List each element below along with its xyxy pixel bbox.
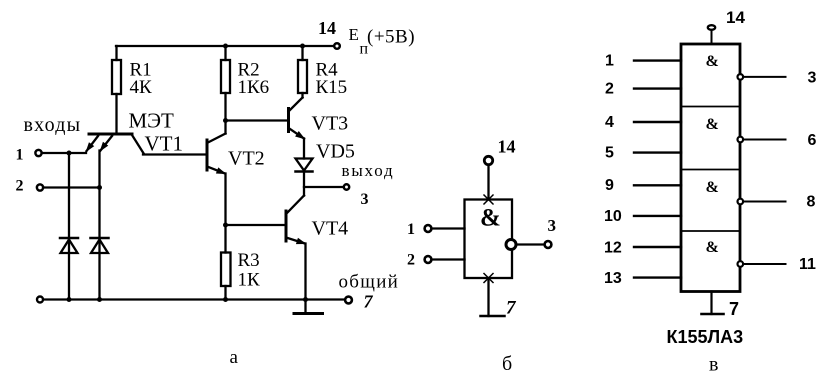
- wire R3 to ground rail: [224, 286, 226, 300]
- svg-text:входы: входы: [24, 114, 82, 136]
- transistor VT1 emitter 2: [101, 136, 113, 151]
- svg-text:VT4: VT4: [312, 218, 349, 240]
- wire pin 1: [634, 59, 681, 61]
- svg-text:12: 12: [604, 240, 622, 257]
- svg-text:&: &: [706, 116, 719, 133]
- node ground terminal pin 7: [345, 297, 352, 304]
- resistor R4: [298, 60, 307, 93]
- wire bottom ground rail: [44, 298, 345, 300]
- svg-text:14: 14: [318, 18, 336, 38]
- wire R2 to VT2 collector: [224, 93, 226, 134]
- node junction input1/diode column: [67, 151, 72, 156]
- ground symbol schematic a: [294, 312, 323, 315]
- node power terminal 14: [484, 156, 492, 164]
- node junction R3/VT4 base: [223, 223, 228, 228]
- wire pin 10: [634, 215, 681, 217]
- node junction diode1/rail: [67, 297, 72, 302]
- svg-text:2: 2: [407, 252, 415, 269]
- svg-text:2: 2: [605, 81, 614, 98]
- wire pin 5: [634, 151, 681, 153]
- svg-text:1К6: 1К6: [238, 77, 270, 98]
- gate U1 body: [465, 200, 513, 279]
- svg-text:7: 7: [729, 299, 739, 319]
- svg-text:R3: R3: [238, 250, 260, 271]
- wire R1 to VT1 base: [115, 94, 117, 133]
- ground bar: [702, 313, 724, 316]
- wire power pin: [711, 31, 713, 44]
- svg-text:(+5В): (+5В): [367, 27, 415, 48]
- transistor VT4 emitter: [286, 238, 305, 244]
- wire node to VT4 base: [226, 224, 287, 226]
- wire pin 3: [745, 76, 786, 78]
- wire VD5 to output node: [303, 172, 305, 196]
- svg-text:1: 1: [16, 147, 24, 164]
- svg-text:10: 10: [604, 208, 622, 225]
- svg-text:&: &: [706, 53, 719, 70]
- node output terminal 3: [545, 241, 552, 248]
- svg-text:в: в: [709, 354, 718, 376]
- node junction VT4 emitter/rail: [303, 297, 308, 302]
- svg-text:&: &: [706, 239, 719, 256]
- transistor VT1 multi-emitter base bar: [89, 133, 132, 136]
- svg-text:14: 14: [726, 8, 745, 27]
- transistor VT3 base bar: [287, 109, 290, 132]
- transistor VT2 collector: [207, 134, 226, 144]
- svg-text:3: 3: [361, 191, 369, 208]
- transistor VT1 emitter 1: [87, 136, 99, 151]
- svg-text:общий: общий: [339, 272, 400, 293]
- wire top power rail: [116, 45, 334, 47]
- pinout diagram в: [634, 25, 786, 314]
- svg-text:6: 6: [808, 132, 817, 149]
- inversion circle pin 8: [738, 199, 744, 205]
- svg-text:11: 11: [799, 256, 816, 273]
- svg-text:3: 3: [548, 216, 557, 235]
- wire node to R3: [224, 225, 226, 253]
- wire ground pin: [487, 278, 489, 316]
- transistor VT3 emitter: [289, 128, 305, 139]
- svg-text:VT2: VT2: [228, 148, 265, 170]
- resistor R1: [112, 60, 121, 94]
- wire rail to R4: [301, 46, 303, 60]
- wire pin 13: [634, 276, 681, 278]
- transistor VT2 emitter: [207, 167, 225, 174]
- section divider 1: [681, 106, 740, 108]
- wire input 2: [44, 186, 100, 188]
- transistor VT1 collector: [132, 135, 144, 154]
- svg-text:VD5: VD5: [316, 141, 355, 163]
- svg-text:выход: выход: [342, 161, 395, 180]
- wire pin 8: [745, 201, 786, 203]
- transistor VT2 base bar: [206, 140, 209, 170]
- diode VD5: [296, 159, 313, 171]
- node input 2 terminal: [37, 184, 43, 190]
- inversion circle output: [506, 240, 516, 250]
- wire VT3 base line: [226, 119, 289, 121]
- diode VD1 input clamp: [60, 237, 78, 240]
- wire VT1 collector to VT2 base: [143, 153, 207, 155]
- svg-text:4К: 4К: [130, 77, 153, 98]
- svg-text:&: &: [480, 205, 501, 232]
- svg-text:7: 7: [364, 292, 374, 312]
- ground bar: [481, 315, 505, 318]
- wire output: [517, 243, 544, 245]
- svg-text:13: 13: [604, 270, 622, 287]
- wire rail to R2: [224, 46, 226, 60]
- svg-text:МЭТ: МЭТ: [129, 109, 175, 133]
- wire pin 4: [634, 121, 681, 123]
- svg-text:а: а: [230, 347, 239, 368]
- node junction input2/emitter2 column: [97, 185, 102, 190]
- transistor VT3 collector: [289, 98, 303, 112]
- wire input 2: [432, 258, 464, 260]
- wire ground pin: [710, 292, 712, 315]
- svg-text:&: &: [706, 179, 719, 196]
- wire pin 2: [634, 87, 681, 89]
- node junction diode2/rail: [97, 297, 102, 302]
- section divider 3: [681, 230, 740, 232]
- wire VT4 emitter to ground: [304, 244, 306, 314]
- svg-text:5: 5: [605, 145, 614, 162]
- node junction R3/rail: [223, 297, 228, 302]
- wire power pin: [487, 165, 489, 200]
- wire input 1: [432, 227, 464, 229]
- svg-text:Е: Е: [349, 25, 359, 44]
- node input 2 terminal: [425, 256, 432, 263]
- IC body К155ЛА3: [681, 44, 740, 292]
- inversion circle pin 11: [738, 261, 744, 267]
- svg-text:1: 1: [605, 53, 614, 70]
- labels schematic a: [16, 18, 416, 368]
- svg-text:1К: 1К: [238, 270, 261, 291]
- svg-text:2: 2: [16, 178, 24, 195]
- node output terminal pin 3: [344, 184, 349, 189]
- svg-text:14: 14: [498, 137, 516, 157]
- wire input1 column down: [68, 153, 70, 300]
- resistor R3: [221, 253, 231, 287]
- wire pin 12: [634, 246, 681, 248]
- svg-text:7: 7: [506, 298, 517, 319]
- transistor VT4 base bar: [285, 211, 288, 241]
- svg-text:VT1: VT1: [145, 132, 184, 156]
- section divider 2: [681, 169, 740, 171]
- wire input 1: [43, 152, 87, 154]
- node input 1 terminal: [35, 150, 41, 156]
- node junction rail power/R2: [223, 44, 228, 49]
- inversion circle pin 3: [738, 74, 744, 80]
- svg-text:3: 3: [808, 70, 817, 87]
- inversion circle pin 6: [738, 137, 744, 143]
- wire VT2 emitter down: [224, 174, 226, 226]
- svg-text:9: 9: [605, 177, 614, 194]
- transistor VT4 collector: [286, 196, 304, 215]
- node junction VT2 collector / VT3 base: [223, 118, 228, 123]
- node power terminal 14: [708, 25, 715, 30]
- wire pin 6: [745, 139, 786, 141]
- svg-text:К155ЛА3: К155ЛА3: [667, 327, 744, 347]
- svg-text:VT3: VT3: [312, 113, 349, 135]
- node junction rail power/R4: [300, 44, 305, 49]
- wire rail to R1: [115, 46, 117, 60]
- node ground rail left terminal: [37, 297, 43, 303]
- resistor R2: [221, 60, 230, 93]
- svg-text:8: 8: [807, 194, 816, 211]
- node power terminal pin 14: [334, 43, 340, 49]
- svg-text:1: 1: [407, 221, 415, 238]
- wire pin 11: [745, 263, 786, 265]
- wire pin 9: [634, 184, 681, 186]
- svg-text:4: 4: [605, 114, 614, 131]
- wire VT3 emitter to VD5: [303, 139, 305, 159]
- wire R4 to VT3 collector: [301, 93, 303, 98]
- wire emitter2 column down: [98, 151, 100, 300]
- node input 1 terminal: [425, 225, 432, 232]
- svg-text:б: б: [502, 353, 512, 375]
- svg-text:К15: К15: [316, 77, 348, 98]
- wire output: [304, 186, 343, 188]
- pin cross top: [484, 195, 493, 204]
- gate symbol б: [425, 156, 552, 316]
- diode VD2 input clamp: [91, 237, 109, 240]
- pin cross bottom: [484, 274, 493, 283]
